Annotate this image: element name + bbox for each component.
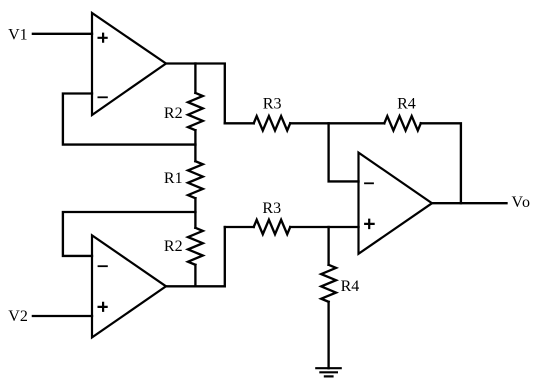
- svg-text:R1: R1: [164, 170, 183, 187]
- svg-text:R2: R2: [164, 105, 183, 122]
- svg-text:Vo: Vo: [512, 194, 532, 211]
- svg-text:R3: R3: [262, 200, 281, 217]
- svg-text:V1: V1: [8, 27, 28, 44]
- svg-text:R4: R4: [341, 278, 360, 295]
- svg-text:R3: R3: [263, 96, 282, 113]
- svg-text:R4: R4: [397, 95, 416, 112]
- svg-text:R2: R2: [164, 238, 183, 255]
- svg-text:V2: V2: [8, 308, 28, 325]
